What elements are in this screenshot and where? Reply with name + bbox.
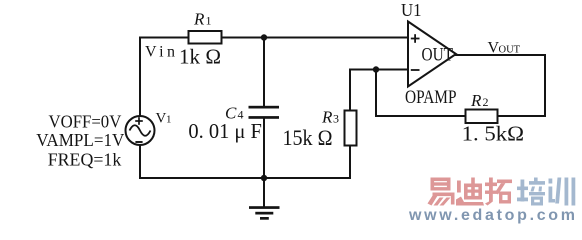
svg-text:R: R [193, 10, 205, 29]
svg-text:V: V [156, 111, 167, 127]
svg-text:1: 1 [166, 114, 172, 126]
wire left rail bottom (source bottom to bottom rail) [139, 145, 141, 179]
svg-text:15k Ω: 15k Ω [283, 125, 333, 150]
svg-text:VOFF=0V: VOFF=0V [49, 112, 122, 132]
wire feedback horizontal to R2 [375, 115, 466, 117]
wire C4 top branch [263, 37, 265, 108]
node junction dot feedback [373, 66, 379, 72]
wire R3 bottom branch [349, 145, 351, 179]
wire C4 bottom branch [263, 118, 265, 180]
wire right rail vertical [544, 54, 546, 117]
op-amp U1 [408, 22, 456, 87]
wire feedback vertical [375, 69, 377, 117]
node junction dot ground [261, 175, 267, 181]
svg-text:R: R [321, 108, 333, 127]
resistor R2 [466, 110, 498, 124]
svg-text:1. 5kΩ: 1. 5kΩ [462, 122, 524, 146]
svg-text:www.edatop.com: www.edatop.com [408, 207, 575, 224]
wire top rail R1 to op-amp [221, 37, 409, 39]
svg-text:Vin: Vin [145, 44, 175, 61]
svg-text:1k Ω: 1k Ω [179, 45, 221, 69]
capacitor C4 [249, 106, 280, 119]
svg-text:2: 2 [483, 95, 489, 109]
wire top rail left of R1 [139, 37, 189, 39]
wire bottom rail [139, 177, 351, 179]
svg-text:0. 01 μ F: 0. 01 μ F [188, 119, 262, 143]
node junction dot R1-C4 [261, 34, 267, 40]
svg-text:1: 1 [206, 14, 212, 28]
wire R3 top branch [349, 69, 351, 112]
svg-text:FREQ=1k: FREQ=1k [48, 150, 122, 170]
ground [249, 206, 280, 220]
resistor R1 [189, 31, 222, 44]
svg-text:3: 3 [333, 112, 339, 126]
resistor R3 [345, 111, 357, 146]
svg-text:VAMPL=1V: VAMPL=1V [36, 130, 124, 150]
wire op-amp output [455, 54, 546, 56]
wire ground stem [263, 177, 265, 207]
svg-text:U1: U1 [401, 0, 422, 20]
svg-text:OPAMP: OPAMP [405, 87, 457, 108]
wire inverting input rail [350, 69, 409, 71]
wire left rail top (source top to top rail) [139, 38, 141, 117]
watermark logo yi di tuo pei xun [428, 178, 455, 206]
wire R2 right to right rail [497, 115, 546, 117]
voltage source V1 [126, 116, 155, 145]
svg-text:OUT: OUT [499, 45, 521, 56]
svg-text:OUT: OUT [422, 44, 454, 65]
svg-text:R: R [470, 91, 482, 110]
